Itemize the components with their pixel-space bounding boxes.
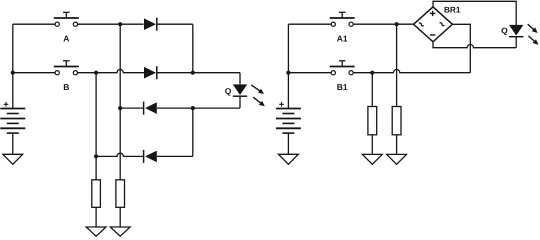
wire battery negative stem (left) [12,133,14,154]
wire B1 rail with hop over v2' to bridge AC2 vertical [353,70,470,73]
svg-text:B: B [63,82,69,92]
svg-text:BR1: BR1 [444,6,461,15]
wire left rail vertical [12,24,14,108]
diode D2 [144,66,157,79]
pushbutton B [54,61,79,75]
svg-text:A: A [63,34,69,44]
wire D1 to corner [157,23,193,25]
LED light arrow 2 (left) [253,97,265,106]
wire B rail from left rail to button B [13,72,55,74]
wire rail3 D3 to LED corner [157,107,240,109]
ground (R1') [362,154,382,164]
node top rail junction [118,22,122,26]
wire bridge plus output up and right to LED [433,1,516,25]
wire rail3 LED to v2 [120,107,143,109]
battery (left) plus sign [4,102,9,107]
wire R1 to ground [95,207,97,227]
wire rail4 D4 to corner up [157,155,193,157]
wire top rail to button A [13,23,55,25]
ground (left battery) [3,154,23,164]
wire D2 to LED branch corner [157,72,240,74]
diode D3 [144,102,157,115]
wire bridge AC2 right corner to B1 rail [452,24,470,72]
wire LED cathode down [239,96,241,108]
ground (R2) [110,227,130,236]
pushbutton A1 [330,12,355,26]
wire R2 to ground [119,207,121,227]
wire D1 branch vertical down [192,24,194,72]
node rail2 / D1 branch [191,71,195,75]
wire right circuit left rail [287,24,289,108]
svg-text:A1: A1 [337,34,348,44]
resistor R1' [368,107,377,135]
wire v1 B rail to resistor R1 [95,73,97,180]
LED light arrow 1 (right) [528,24,538,33]
wire bridge minus output down right with hop to LED cathode [433,42,516,48]
wire rail3-rail4 vertical [192,108,194,156]
resistor R2 [116,180,125,208]
LED Q (left) [233,84,247,96]
wire v1' to resistor R1' [371,73,373,107]
LED light arrow 2 (right) [529,36,539,45]
node top rail / v2' [395,22,399,26]
LED light arrow 1 (left) [251,85,264,94]
resistor R1 [92,180,101,208]
bridge AC tilde right [440,22,445,27]
bridge minus mark [430,34,435,36]
wire R1' to ground [371,135,373,155]
svg-text:Q: Q [501,26,508,36]
node rail4 / v1 [94,154,98,158]
pushbutton B1 [330,61,355,75]
wire B rail with hop over v2 to diode D2 [78,69,145,72]
wire v2' to resistor R2' [396,24,398,106]
node rail3 / v2 [118,106,122,110]
node B rail / v1 [94,71,98,75]
battery (right) plus sign [279,102,284,107]
ground (R2') [387,154,407,164]
LED Q (right) [509,25,523,37]
ground (R1) [86,227,106,236]
node left rail / B rail [11,71,15,75]
pushbutton A [54,12,79,26]
node B1 rail / v1' [370,71,374,75]
battery (right) plates [276,109,301,134]
node left rail / B1 rail [286,71,290,75]
svg-text:B1: B1 [337,82,348,92]
wire B1 rail from left rail to button B1 [288,72,331,74]
wire v2 top rail to resistor R2 [119,24,121,180]
ground (right battery) [279,154,299,164]
node rail3 / rail4 branch [191,106,195,110]
diode D1 [144,18,157,31]
diode D4 [144,150,157,163]
bridge AC tilde left [419,22,424,27]
resistor R2' [392,107,401,135]
bridge rectifier BR1 diamond [414,7,453,42]
wire top rail to button A1 [288,23,331,25]
wire R2' to ground [396,135,398,155]
wire button A to node, to diode D1 [78,23,144,25]
wire battery negative stem (right) [287,133,289,154]
bridge plus mark [430,11,435,16]
wire rail4 with hop over v2 [96,153,144,156]
battery (left) plates [0,109,25,134]
svg-text:Q: Q [225,86,232,96]
wire LED cathode down to bottom wire [515,37,517,48]
wire corner down to LED anode [239,73,241,85]
wire button A1 to bridge left corner [353,23,413,25]
